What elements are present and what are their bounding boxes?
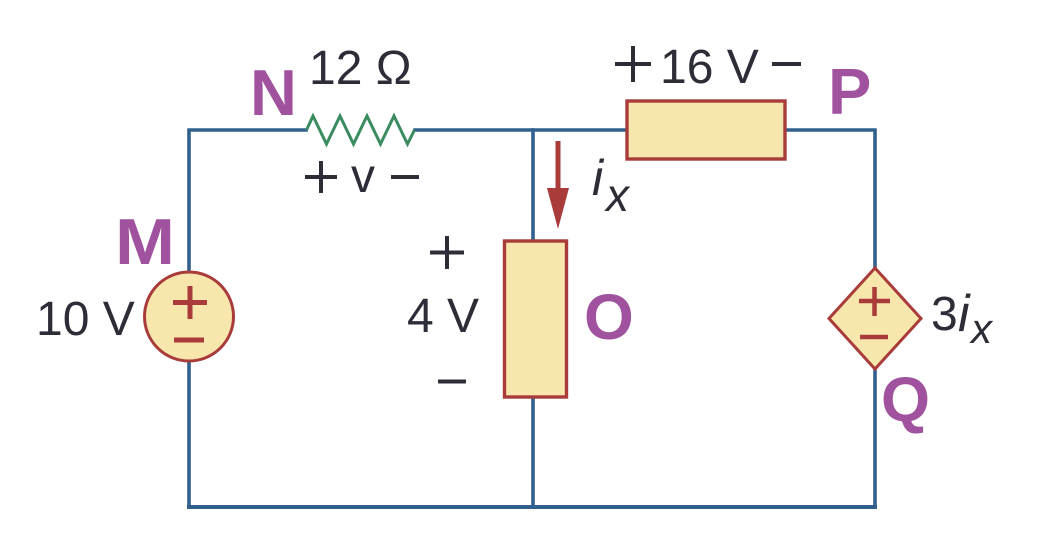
svg-text:x: x bbox=[604, 169, 631, 221]
svg-text:16 V: 16 V bbox=[660, 41, 759, 94]
svg-text:i: i bbox=[592, 150, 605, 206]
svg-text:12 Ω: 12 Ω bbox=[309, 42, 412, 95]
svg-text:v: v bbox=[351, 150, 375, 203]
svg-text:4 V: 4 V bbox=[407, 290, 479, 343]
svg-text:M: M bbox=[115, 205, 175, 278]
svg-text:10 V: 10 V bbox=[36, 293, 135, 346]
svg-text:O: O bbox=[584, 281, 634, 353]
svg-text:P: P bbox=[828, 55, 871, 128]
svg-text:3: 3 bbox=[931, 288, 958, 341]
svg-text:i: i bbox=[958, 285, 971, 343]
svg-text:Q: Q bbox=[881, 365, 930, 435]
svg-text:x: x bbox=[969, 305, 994, 352]
svg-text:N: N bbox=[250, 56, 297, 129]
